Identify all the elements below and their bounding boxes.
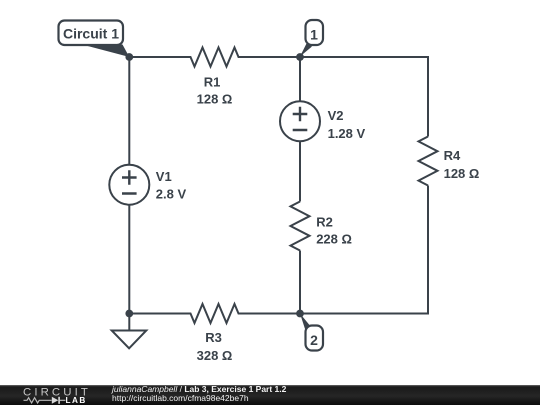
svg-text:LAB: LAB (66, 396, 87, 405)
footer bar (0, 385, 540, 405)
svg-text:2: 2 (310, 332, 318, 348)
svg-text:R4: R4 (444, 148, 461, 163)
label R1 value (156, 75, 480, 364)
node label 2 (300, 314, 323, 351)
resistor R4 (419, 137, 438, 186)
wire middle branch upper (node 1 to V2 top) (299, 57, 301, 101)
junction node 1 (296, 53, 304, 61)
footer credit text (112, 385, 286, 404)
svg-text:R1: R1 (204, 75, 221, 90)
wire right branch lower (R4 to bottom-right corner, left to node 2) (300, 186, 428, 314)
voltage source V1 (109, 165, 149, 205)
junction node 2 (296, 310, 304, 318)
svg-text:1: 1 (310, 27, 318, 43)
wire left branch upper (node A to V1 top) (128, 57, 130, 165)
svg-text:V2: V2 (328, 108, 344, 123)
svg-text:128 Ω: 128 Ω (444, 166, 480, 181)
wire middle branch lower (R2 bottom to node 2) (299, 251, 301, 314)
wire middle branch between V2 and R2 (299, 141, 301, 201)
node label 1 (300, 20, 323, 57)
junction node D (ground) (125, 310, 133, 318)
resistor R3 (129, 304, 300, 323)
wire left branch lower (V1 bottom to ground node) (128, 205, 130, 314)
CircuitLab logo (0, 385, 110, 405)
resistor R1 (129, 48, 300, 67)
Circuit 1 callout (59, 21, 130, 58)
resistor R2 (291, 202, 310, 251)
ground (112, 314, 147, 349)
svg-text:228 Ω: 228 Ω (316, 231, 352, 246)
junction node A (top left) (125, 53, 133, 61)
svg-text:Circuit 1: Circuit 1 (63, 26, 119, 42)
svg-text:2.8 V: 2.8 V (156, 187, 187, 202)
svg-text:V1: V1 (156, 169, 172, 184)
logo diode symbol (52, 396, 59, 403)
voltage source V2 (280, 101, 320, 141)
logo resistor symbol (24, 397, 52, 402)
svg-text:328 Ω: 328 Ω (197, 348, 233, 363)
svg-text:128 Ω: 128 Ω (197, 92, 233, 107)
svg-text:R2: R2 (316, 214, 333, 229)
svg-text:R3: R3 (205, 330, 222, 345)
svg-text:1.28 V: 1.28 V (328, 126, 366, 141)
wire top right (node 1 to top-right corner, down to R4) (300, 57, 428, 137)
